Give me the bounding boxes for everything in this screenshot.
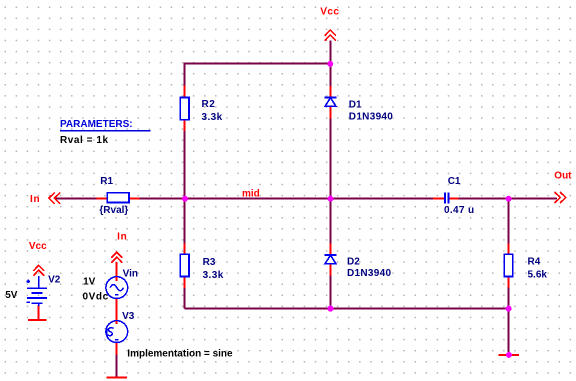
- svg-text:V2: V2: [48, 275, 61, 286]
- wire: right column from C1 node through R4 to ground: [508, 199, 510, 354]
- svg-text:0Vdc: 0Vdc: [83, 292, 109, 303]
- resistor R3 body: [180, 254, 189, 276]
- svg-text:R4: R4: [528, 257, 541, 268]
- svg-text:Out: Out: [554, 171, 572, 182]
- resistor R2 body: [180, 97, 189, 119]
- svg-text:PARAMETERS:: PARAMETERS:: [60, 119, 133, 130]
- svg-text:In: In: [30, 194, 40, 205]
- port Out (right, double chevron): [555, 192, 566, 202]
- source V3 (signal): [106, 321, 128, 343]
- capacitor C1 plates: [445, 192, 449, 203]
- svg-text:D1N3940: D1N3940: [347, 268, 391, 279]
- svg-text:In: In: [117, 232, 127, 243]
- svg-text:5.6k: 5.6k: [528, 270, 548, 281]
- pins (red): [39, 86, 509, 355]
- junction: C1/R4/Out node: [506, 196, 512, 202]
- wire: left column through R1 node down to bottom wire: [184, 63, 186, 309]
- resistor R2 pins: [184, 86, 186, 99]
- diode D1 pins: [330, 86, 332, 98]
- capacitor C1 pins: [433, 198, 444, 200]
- source Vin pins: [116, 262, 118, 281]
- svg-text:D1: D1: [349, 100, 362, 111]
- resistor R3 pins: [184, 244, 186, 256]
- wire: V3 to ground: [116, 354, 118, 377]
- battery V2: [27, 276, 48, 306]
- port In (middle, up arrows): [112, 252, 122, 262]
- junction: D2 bottom node: [328, 306, 334, 312]
- svg-text:Vcc: Vcc: [29, 241, 47, 252]
- source Vin (sine): [106, 277, 128, 299]
- source V2 bottom pin: [38, 305, 40, 319]
- svg-text:3.3k: 3.3k: [202, 112, 223, 123]
- svg-text:C1: C1: [448, 176, 461, 187]
- svg-text:Rval = 1k: Rval = 1k: [60, 135, 109, 146]
- svg-text:V3: V3: [122, 311, 135, 322]
- svg-text:R3: R3: [203, 257, 216, 268]
- ground bar under R4: [499, 354, 519, 356]
- svg-text:3.3k: 3.3k: [203, 270, 224, 281]
- power symbol Vcc (left of V2, up arrows): [34, 265, 44, 275]
- svg-text:{Rval}: {Rval}: [99, 205, 128, 216]
- junction: Vcc/R2/D1 node: [327, 61, 333, 67]
- port In (left, double chevron): [49, 193, 60, 203]
- resistor R4 body: [504, 254, 513, 276]
- svg-text:1V: 1V: [83, 277, 96, 288]
- svg-text:0.47 u: 0.47 u: [444, 205, 474, 216]
- wire: bottom wire from left corner to R4 node: [185, 308, 509, 310]
- svg-text:Vin: Vin: [123, 269, 138, 280]
- wire: top wire from R2 corner to Vcc node: [185, 63, 331, 65]
- svg-text:mid: mid: [242, 188, 260, 199]
- svg-text:R2: R2: [202, 99, 216, 110]
- diode D2 pins: [330, 244, 332, 256]
- source V3 bottom pin: [116, 342, 118, 355]
- svg-text:5V: 5V: [5, 290, 18, 301]
- junction: mid/D1/D2 node: [328, 196, 334, 202]
- diode D2: [325, 255, 337, 264]
- svg-text:Implementation = sine: Implementation = sine: [127, 349, 233, 360]
- resistor R1 pins: [97, 198, 109, 200]
- junction: ground node: [506, 352, 512, 358]
- svg-text:D1N3940: D1N3940: [349, 112, 393, 123]
- ground bar under V2: [28, 319, 47, 321]
- wire: main horizontal net In-mid-Out at y=198.7: [56, 41, 558, 378]
- svg-text:Vcc: Vcc: [320, 7, 339, 18]
- diode D1: [325, 98, 337, 107]
- ground bar under V3: [106, 376, 127, 378]
- svg-text:R1: R1: [100, 176, 113, 187]
- resistor R1 body (horizontal): [107, 193, 129, 203]
- svg-text:D2: D2: [347, 257, 360, 268]
- wire: mid column Vcc node through D1, D2: [330, 41, 332, 309]
- junction: R4 bottom node: [506, 306, 512, 312]
- junction: R1/R2/R3/mid node: [182, 196, 188, 202]
- power symbol Vcc (top, up arrows): [325, 30, 335, 40]
- resistor R4 pins: [508, 244, 510, 256]
